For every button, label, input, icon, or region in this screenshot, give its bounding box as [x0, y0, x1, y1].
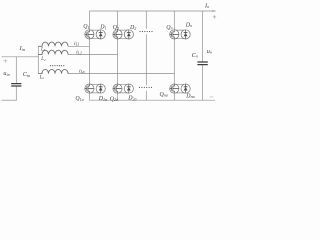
- wire pairn bottom bars: [174, 84, 185, 93]
- transistor Q1a: [85, 84, 94, 93]
- wire row1 to leg1: [68, 45, 90, 47]
- diode D2: [124, 30, 133, 39]
- arrow Io: [212, 10, 216, 11]
- svg-text:Io: Io: [204, 2, 209, 9]
- wire legn: [173, 11, 175, 100]
- wire Cin branch: [15, 57, 17, 100]
- wire rown to legn: [68, 73, 175, 75]
- wire pair1 top bars: [89, 30, 100, 39]
- diode D1: [96, 30, 105, 39]
- wire bottom-left stub: [2, 99, 17, 101]
- svg-text:iL2: iL2: [76, 50, 82, 56]
- svg-text:Q1: Q1: [83, 24, 89, 30]
- wire pair1 bottom bars: [89, 84, 100, 93]
- svg-text:Q1a: Q1a: [75, 96, 83, 102]
- svg-text:iLn: iLn: [79, 68, 85, 74]
- svg-text:Qn: Qn: [166, 25, 172, 31]
- wire ellipsis leg: [145, 11, 147, 100]
- diode Dna: [181, 84, 190, 93]
- transistor Q1: [85, 30, 94, 39]
- svg-text:Dna: Dna: [185, 93, 194, 99]
- transistor Qn: [170, 30, 179, 39]
- transistor Q2a: [113, 84, 122, 93]
- wire input: [2, 56, 39, 58]
- wire row2 to leg2: [68, 53, 118, 55]
- inductor L2 coil: [38, 50, 68, 54]
- capacitor Cin plates: [11, 84, 21, 86]
- ellipsis inductors: [50, 65, 64, 66]
- svg-text:Iin: Iin: [19, 45, 25, 52]
- wire bottom rail: [89, 99, 215, 101]
- svg-text:Dn: Dn: [185, 22, 192, 28]
- diode Dn: [181, 30, 190, 39]
- svg-text:uin: uin: [3, 70, 9, 77]
- svg-text:Q2: Q2: [113, 25, 119, 31]
- svg-text:iL1: iL1: [74, 41, 80, 47]
- node plus input: [3, 59, 7, 62]
- svg-text:D1: D1: [99, 25, 106, 31]
- svg-text:D2: D2: [129, 25, 136, 31]
- wire Co branch: [202, 11, 204, 100]
- svg-text:Q2a: Q2a: [110, 96, 118, 102]
- inductor L1 coil: [38, 42, 68, 46]
- svg-text:D1a: D1a: [98, 96, 107, 102]
- svg-text:L1: L1: [40, 47, 46, 52]
- wire leg2: [117, 11, 119, 100]
- wire leg1: [88, 11, 90, 100]
- node minus output: [210, 96, 214, 98]
- wire pairn top bars: [174, 30, 185, 39]
- svg-text:uo: uo: [207, 48, 212, 55]
- diode D1a: [96, 84, 105, 93]
- svg-text:L2: L2: [40, 57, 46, 62]
- wire pair2 bottom bars: [118, 84, 129, 93]
- svg-text:Ln: Ln: [39, 75, 45, 80]
- inductor Ln coil: [38, 69, 68, 73]
- svg-text:Cin: Cin: [23, 71, 30, 78]
- transistor Qna: [170, 84, 179, 93]
- wire inductor bus: [37, 46, 39, 73]
- ellipsis bottom devices: [139, 87, 152, 88]
- wire top rail: [89, 10, 215, 12]
- diode D2a: [124, 84, 133, 93]
- node plus output: [213, 15, 216, 18]
- ellipsis top devices: [139, 31, 152, 32]
- transistor Q2: [113, 30, 122, 39]
- svg-text:Qna: Qna: [160, 92, 168, 98]
- capacitor Co plates: [197, 62, 207, 65]
- svg-text:D2a: D2a: [127, 96, 136, 102]
- wire pair2 top bars: [118, 30, 129, 39]
- svg-text:Co: Co: [192, 52, 198, 59]
